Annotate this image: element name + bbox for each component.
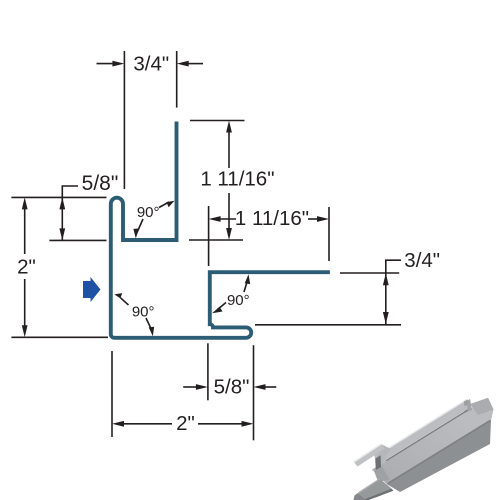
svg-text:5/8": 5/8" xyxy=(82,172,119,195)
svg-text:3/4": 3/4" xyxy=(404,249,440,272)
svg-text:2": 2" xyxy=(176,412,195,435)
svg-text:2": 2" xyxy=(17,256,36,279)
svg-text:90°: 90° xyxy=(137,204,160,221)
svg-text:90°: 90° xyxy=(132,303,155,320)
svg-text:3/4": 3/4" xyxy=(133,53,169,76)
svg-text:5/8": 5/8" xyxy=(214,376,250,399)
svg-text:90°: 90° xyxy=(227,292,250,309)
svg-text:1 11/16": 1 11/16" xyxy=(200,167,274,190)
svg-text:1 11/16": 1 11/16" xyxy=(235,207,309,230)
